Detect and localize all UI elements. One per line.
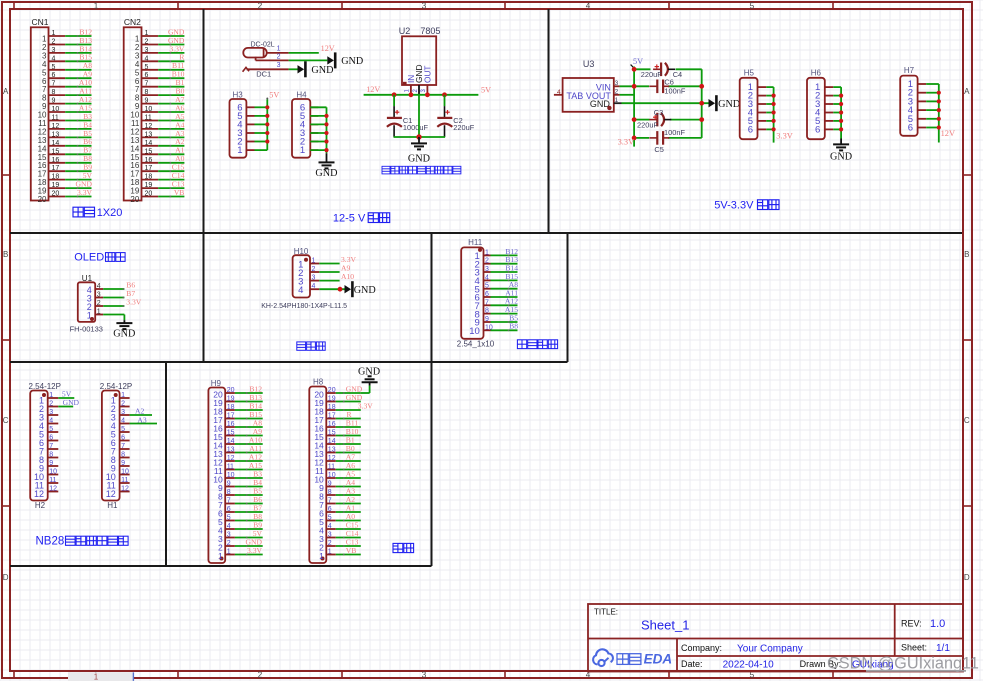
junction dots H6 <box>839 94 843 98</box>
wire H9 pin 1 <box>235 554 263 556</box>
svg-text:3.3V: 3.3V <box>247 546 262 555</box>
svg-text:6: 6 <box>748 124 753 135</box>
H5 wires to 3.3V bus <box>766 86 773 88</box>
svg-text:H7: H7 <box>904 66 915 75</box>
wire CN1 pin 12 <box>65 128 91 130</box>
capacitor C4 220uF <box>653 68 661 70</box>
H1 pin stubs <box>120 397 130 399</box>
wire H11 pin 10 <box>491 329 518 331</box>
svg-text:TAB: TAB <box>566 91 583 101</box>
wire CN2 pin 3 <box>158 52 184 54</box>
annotation electrolytic note <box>382 166 390 174</box>
svg-text:H3: H3 <box>233 90 244 99</box>
svg-text:12-5 V: 12-5 V <box>333 213 366 225</box>
wire C4 top row <box>634 68 650 70</box>
wire CN2 pin 9 <box>158 103 184 105</box>
wire CN1 pin 7 <box>65 86 91 88</box>
svg-text:2: 2 <box>277 53 281 60</box>
svg-text:B: B <box>964 250 969 259</box>
junction dot <box>416 134 421 139</box>
wire CN1 pin 8 <box>65 94 91 96</box>
junction dots H3 bus <box>265 105 269 109</box>
wire CN1 pin 10 <box>65 111 91 113</box>
wire U1 pin 3 <box>103 297 124 299</box>
wire H8 pin 11 <box>336 469 361 471</box>
wire H9 pin 6 <box>235 511 263 513</box>
svg-text:1: 1 <box>615 97 619 104</box>
svg-text:1: 1 <box>218 551 223 561</box>
svg-text:H2: H2 <box>35 501 46 510</box>
wire DC1 pin3 to GND <box>289 68 298 70</box>
junction dot <box>338 287 343 292</box>
svg-text:1: 1 <box>237 145 242 156</box>
wire 3.3V bus (H5) <box>773 87 775 143</box>
wire 3.3V row <box>634 137 649 139</box>
svg-text:2.54_1x10: 2.54_1x10 <box>457 339 495 348</box>
frame label edit box artifact <box>68 672 134 681</box>
svg-text:220uF: 220uF <box>641 70 662 79</box>
wire GND bus (H6) <box>840 87 842 138</box>
wire H8 pin 6 <box>336 511 361 513</box>
svg-text:C6: C6 <box>664 78 673 87</box>
wire CN1 pin 19 <box>65 187 91 189</box>
H11 pin stubs <box>484 254 491 256</box>
wire CN2 pin 6 <box>158 77 184 79</box>
svg-text:C4: C4 <box>673 70 682 79</box>
annotation ten keys <box>517 340 526 349</box>
wire 5V bus (H3) <box>266 99 268 150</box>
wire VIN row <box>620 85 649 87</box>
svg-text:100nF: 100nF <box>664 128 685 137</box>
wire H8 pin 12 <box>336 460 361 462</box>
net flag 5V (H3) <box>266 98 268 100</box>
wire H9 pin 12 <box>235 460 263 462</box>
svg-text:U2: U2 <box>399 26 411 36</box>
wire CN2 pin 7 <box>158 86 184 88</box>
wire H1 pin3 <box>130 414 152 416</box>
wire U1 pin1 to GND <box>103 314 124 316</box>
svg-text:12V: 12V <box>941 129 955 138</box>
svg-text:GND: GND <box>113 329 135 340</box>
wire H8 pin 3 <box>336 537 361 539</box>
svg-text:REV:: REV: <box>901 619 922 629</box>
wire CN1 pin 13 <box>65 136 91 138</box>
wire U1 pin 2 <box>103 305 124 307</box>
svg-text:GND: GND <box>358 367 380 378</box>
ground GND (H8 top) <box>369 382 371 385</box>
wire H10 pin 1 <box>319 263 339 265</box>
svg-text:4: 4 <box>557 89 561 96</box>
svg-text:3.3V: 3.3V <box>776 132 793 141</box>
H8 pin stubs <box>326 392 336 394</box>
svg-text:220uF: 220uF <box>637 120 658 129</box>
ground GND (H10) <box>345 285 352 293</box>
junction dots U2 rail <box>392 92 397 97</box>
svg-text:C: C <box>964 416 970 425</box>
annotation pin header <box>393 543 403 552</box>
svg-text:D: D <box>3 573 9 582</box>
wire cap bottoms <box>394 136 446 138</box>
wire CN2 pin 18 <box>158 179 184 181</box>
wire CN2 pin 16 <box>158 162 184 164</box>
wire H9 pin 4 <box>235 528 263 530</box>
wire H8 pin 2 <box>336 545 361 547</box>
DC1 pin 1 <box>267 52 289 54</box>
svg-text:5V-3.3V: 5V-3.3V <box>714 200 754 212</box>
wire GND row <box>622 102 709 104</box>
wire H9 pin 10 <box>235 477 263 479</box>
wire H2 pin2 <box>58 406 73 408</box>
wire U1 pin 4 <box>103 288 124 290</box>
DC1 pin 3 <box>243 67 249 71</box>
wire H9 pin 19 <box>235 401 263 403</box>
svg-text:D: D <box>964 573 970 582</box>
svg-text:7805: 7805 <box>420 26 440 36</box>
wire CN1 pin 20 <box>65 196 91 198</box>
wire H11 pin 4 <box>491 279 518 281</box>
svg-text:220uF: 220uF <box>453 123 474 132</box>
wire CN1 pin 11 <box>65 120 91 122</box>
svg-text:A2: A2 <box>135 406 144 415</box>
wire CN2 pin 10 <box>158 111 184 113</box>
wire H11 pin 3 <box>491 271 518 273</box>
svg-text:12V: 12V <box>366 85 380 94</box>
svg-text:H4: H4 <box>296 90 307 99</box>
H4 pin stubs <box>310 106 318 108</box>
svg-text:CN2: CN2 <box>124 17 141 27</box>
svg-text:10: 10 <box>469 326 480 337</box>
wire DC1 pin2 to GND <box>289 59 328 61</box>
svg-text:5V: 5V <box>481 86 491 95</box>
U1 pin1 marker <box>90 317 94 321</box>
svg-text:A10: A10 <box>341 272 354 281</box>
svg-text:3.3V: 3.3V <box>358 401 373 410</box>
svg-text:GND: GND <box>408 153 430 164</box>
wire CN1 pin 16 <box>65 162 91 164</box>
svg-text:12: 12 <box>106 489 116 499</box>
wire H2 pin1 <box>58 397 74 399</box>
svg-text:5: 5 <box>750 1 755 10</box>
wire H9 pin 9 <box>235 486 263 488</box>
wire H9 pin 8 <box>235 494 263 496</box>
svg-text:1: 1 <box>94 673 99 681</box>
svg-text:VB: VB <box>174 188 185 197</box>
svg-text:3: 3 <box>277 62 281 69</box>
svg-text:3.3V: 3.3V <box>126 297 141 306</box>
wire H8 pin 1 <box>336 554 361 556</box>
junction dots U3 <box>632 67 637 72</box>
DC1 pin 2 <box>255 57 257 61</box>
wire H11 pin 9 <box>491 321 518 323</box>
H6 wires to GND bus <box>833 86 841 88</box>
wire CN1 pin 4 <box>65 60 91 62</box>
svg-text:C5: C5 <box>654 145 663 154</box>
svg-text:CSDN @GUIxiang11: CSDN @GUIxiang11 <box>827 654 979 672</box>
wire H1 pin4 <box>130 423 157 425</box>
svg-text:3.3V: 3.3V <box>618 137 635 146</box>
wire H9 pin 5 <box>235 520 263 522</box>
svg-text:1: 1 <box>319 551 324 561</box>
H4 wires to GND bus <box>310 106 326 108</box>
title block <box>588 604 963 672</box>
H5 pin stubs <box>758 86 767 88</box>
svg-text:H6: H6 <box>811 69 822 78</box>
svg-text:H8: H8 <box>313 378 324 387</box>
wire H11 pin 8 <box>491 313 518 315</box>
svg-text:4: 4 <box>298 285 303 296</box>
svg-text:2.54-12P: 2.54-12P <box>29 382 61 391</box>
wire CN2 pin 14 <box>158 145 184 147</box>
frame column ticks <box>13 2 15 9</box>
wire H8 pin 8 <box>336 494 361 496</box>
wire H8 pin 18 <box>336 409 361 411</box>
svg-text:1X20: 1X20 <box>97 207 123 219</box>
annotation 排母1X20 <box>73 207 83 217</box>
svg-text:C: C <box>3 416 9 425</box>
wire CN1 pin 15 <box>65 153 91 155</box>
wire 12V rail to U2 <box>364 94 479 96</box>
wire H8 pin 14 <box>336 443 361 445</box>
annotation input pins <box>297 342 306 350</box>
wire H8 pin 15 <box>336 435 361 437</box>
svg-text:20: 20 <box>38 195 47 204</box>
H9 pin stubs <box>225 392 235 394</box>
wire GND bus (H4) <box>326 107 328 153</box>
wire H8 pin 7 <box>336 503 361 505</box>
svg-text:B8: B8 <box>509 322 518 331</box>
wire CN1 pin 2 <box>65 44 91 46</box>
wire H10 pin 2 <box>319 271 339 273</box>
svg-text:A: A <box>3 87 9 96</box>
svg-text:1/1: 1/1 <box>936 643 950 654</box>
svg-text:GND: GND <box>354 285 376 296</box>
wire H8 pin 16 <box>336 426 361 428</box>
svg-text:20: 20 <box>130 195 139 204</box>
svg-text:GND: GND <box>718 99 740 110</box>
svg-text:Your Company: Your Company <box>737 644 803 655</box>
wire H8 pin 5 <box>336 520 361 522</box>
wire DC1 pin1 to 12V <box>289 52 319 54</box>
junction dots H4 bus <box>324 114 328 118</box>
svg-text:NB28: NB28 <box>36 535 65 547</box>
wire CN2 pin 11 <box>158 120 184 122</box>
wire H9 pin 7 <box>235 503 263 505</box>
wire H8 pin 10 <box>336 477 361 479</box>
H3 pin stubs <box>246 106 254 108</box>
CN2 pin stubs <box>142 35 159 37</box>
wire U3 right bus <box>701 69 703 138</box>
wire CN2 pin 15 <box>158 153 184 155</box>
svg-text:1: 1 <box>277 46 281 53</box>
wire H10 pin4 to GND <box>319 288 344 290</box>
capacitor C6 100nF <box>649 85 657 87</box>
capacitor C5 100nF <box>649 137 657 139</box>
wire H9 pin 15 <box>235 435 263 437</box>
wire H9 pin 2 <box>235 545 263 547</box>
svg-text:6: 6 <box>908 123 913 134</box>
svg-text:H11: H11 <box>468 238 483 247</box>
svg-text:OUT: OUT <box>422 65 432 83</box>
svg-text:5V: 5V <box>269 91 279 100</box>
ground GND (U1) <box>123 320 125 323</box>
H7 wires to 12V bus <box>926 83 939 85</box>
svg-text:Sheet_1: Sheet_1 <box>641 618 689 633</box>
wire C3 row <box>634 119 649 121</box>
wire H10 pin 3 <box>319 280 339 282</box>
wire CN2 pin 13 <box>158 136 184 138</box>
svg-text:GND: GND <box>315 168 337 179</box>
svg-text:12: 12 <box>34 489 44 499</box>
svg-text:H5: H5 <box>744 69 755 78</box>
wire CN1 pin 3 <box>65 52 91 54</box>
wire H9 pin 11 <box>235 469 263 471</box>
H7 pin stubs <box>918 83 927 85</box>
svg-text:U3: U3 <box>583 59 595 69</box>
wire CN1 pin 6 <box>65 77 91 79</box>
svg-text:H1: H1 <box>107 501 118 510</box>
wire H11 pin 5 <box>491 288 518 290</box>
wire H9 pin 17 <box>235 418 263 420</box>
svg-text:VB: VB <box>346 546 357 555</box>
svg-text:GND: GND <box>830 151 852 162</box>
svg-text:CN1: CN1 <box>32 17 49 27</box>
svg-text:2.54-12P: 2.54-12P <box>100 382 132 391</box>
U3 pin 1 GND <box>614 102 622 104</box>
capacitor C1 1000uF <box>393 95 395 106</box>
wire H8 pin 4 <box>336 528 361 530</box>
svg-text:3: 3 <box>422 671 427 680</box>
svg-text:5V: 5V <box>633 57 643 66</box>
wire H11 pin 1 <box>491 254 518 256</box>
wire H11 pin 7 <box>491 304 518 306</box>
wire CN1 pin 1 <box>65 35 91 37</box>
svg-text:A3: A3 <box>137 415 146 424</box>
U3 pin 2 VOUT <box>614 94 620 96</box>
svg-text:A: A <box>964 87 970 96</box>
H2 pin stubs <box>48 397 59 399</box>
wire CN2 pin 12 <box>158 128 184 130</box>
svg-text:1000uF: 1000uF <box>403 123 429 132</box>
wire H9 pin 18 <box>235 409 263 411</box>
svg-text:1: 1 <box>300 145 305 156</box>
wire CN1 pin 18 <box>65 179 91 181</box>
H10 pin stubs <box>310 263 319 265</box>
U2 pins 1 2 3 <box>410 85 412 95</box>
wire H9 pin 3 <box>235 537 263 539</box>
svg-text:C3: C3 <box>654 108 663 117</box>
wire CN1 pin 14 <box>65 145 91 147</box>
ground GND (H6) <box>840 139 842 145</box>
wire CN2 pin 2 <box>158 44 184 46</box>
wire H9 pin 20 <box>235 392 263 394</box>
svg-text:Date:: Date: <box>681 659 703 669</box>
capacitor C3 220uF <box>649 119 657 121</box>
svg-text:GND: GND <box>341 56 363 67</box>
svg-text:1: 1 <box>94 1 99 10</box>
wire H9 pin 14 <box>235 443 263 445</box>
svg-text:FH-00133: FH-00133 <box>70 324 103 333</box>
wire U2 GND down <box>418 95 420 137</box>
svg-text:3: 3 <box>422 1 427 10</box>
ground GND (DC1 pin3) <box>298 65 305 73</box>
wire H11 pin 2 <box>491 263 518 265</box>
EasyEDA logo <box>593 649 613 666</box>
wire U3 left bus <box>633 67 635 147</box>
wire CN2 pin 5 <box>158 69 184 71</box>
ground GND (H4) <box>326 153 328 162</box>
wire H8 pin 9 <box>336 486 361 488</box>
wire H8 pin20 to GND <box>361 392 370 394</box>
svg-text:2: 2 <box>615 89 619 96</box>
wire H8 pin 20 <box>336 392 361 394</box>
wire H8 pin 17 <box>336 418 361 420</box>
svg-text:3.3V: 3.3V <box>77 188 92 197</box>
wire H11 pin 6 <box>491 296 518 298</box>
wire CN1 pin 5 <box>65 69 91 71</box>
wire CN2 pin 8 <box>158 94 184 96</box>
CN1 pin stubs <box>49 35 66 37</box>
wire CN2 pin 17 <box>158 170 184 172</box>
svg-text:2: 2 <box>258 1 263 10</box>
wire H8 pin 19 <box>336 401 361 403</box>
svg-text:B: B <box>3 250 8 259</box>
svg-text:TITLE:: TITLE: <box>594 608 618 617</box>
svg-text:KH-2.54PH180-1X4P-L11.5: KH-2.54PH180-1X4P-L11.5 <box>261 303 347 310</box>
wire H9 pin 13 <box>235 452 263 454</box>
svg-text:6: 6 <box>815 124 820 135</box>
wire CN1 pin 9 <box>65 103 91 105</box>
svg-text:Sheet:: Sheet: <box>901 643 927 653</box>
svg-text:2022-04-10: 2022-04-10 <box>723 660 775 671</box>
wire CN2 pin 20 <box>158 196 184 198</box>
H3 wires to 5V bus <box>255 106 268 108</box>
junction dots H5 <box>772 94 776 98</box>
svg-text:EDA: EDA <box>644 652 673 667</box>
ground GND (DC1 pin2) <box>327 56 334 64</box>
wire H8 pin 13 <box>336 452 361 454</box>
svg-text:3: 3 <box>615 80 619 87</box>
wire CN2 pin 19 <box>158 187 184 189</box>
wire 12V bus (H7) <box>938 84 940 143</box>
svg-text:Company:: Company: <box>681 643 722 653</box>
svg-text:GND: GND <box>311 65 333 76</box>
svg-text:12V: 12V <box>321 44 335 53</box>
U3 pin 4 TAB <box>554 94 563 96</box>
H6 pin stubs <box>825 86 834 88</box>
junction dots H7 <box>937 91 941 95</box>
ground GND (U3) <box>709 99 716 107</box>
svg-text:DC1: DC1 <box>256 70 271 79</box>
capacitor C2 220uF <box>444 95 446 106</box>
svg-text:2: 2 <box>258 671 263 680</box>
wire H9 pin 16 <box>235 426 263 428</box>
ground GND (U2) <box>418 137 420 143</box>
svg-text:4: 4 <box>586 1 591 10</box>
U1 pin stubs <box>95 288 103 290</box>
svg-text:GND: GND <box>63 398 80 407</box>
wire CN1 pin 17 <box>65 170 91 172</box>
wire CN2 pin 4 <box>158 60 184 62</box>
svg-text:OLED: OLED <box>74 252 104 264</box>
U3 pin 3 VIN <box>614 85 620 87</box>
svg-text:100nF: 100nF <box>664 86 685 95</box>
wire VOUT row <box>620 94 635 96</box>
block partition lines <box>10 232 962 234</box>
svg-text:1.0: 1.0 <box>930 618 945 630</box>
wire CN2 pin 1 <box>158 35 184 37</box>
